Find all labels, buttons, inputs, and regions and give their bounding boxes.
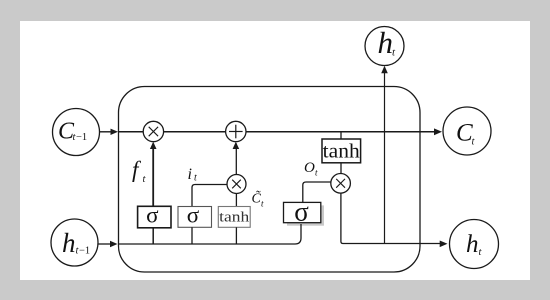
multiply node X3 bbox=[331, 174, 351, 194]
node C(t-1) bbox=[53, 109, 100, 156]
tanh box 1 bbox=[218, 207, 250, 228]
svg-text:C: C bbox=[456, 120, 473, 147]
add node + bbox=[226, 121, 246, 141]
svg-text:tanh: tanh bbox=[323, 141, 360, 163]
svg-text:i: i bbox=[188, 166, 192, 183]
wire: i gate L to X mid bbox=[192, 185, 227, 207]
wire: branch up to top h_t bbox=[384, 68, 386, 244]
wire: X3 down and right to h_t bbox=[341, 193, 440, 243]
node h(t) top bbox=[365, 27, 404, 66]
sigma box 1 bbox=[138, 206, 171, 228]
svg-text:−1: −1 bbox=[79, 246, 90, 257]
tanh box 2 bbox=[340, 132, 342, 139]
wire: main C line bbox=[119, 131, 144, 133]
LSTM cell body rounded rectangle bbox=[119, 87, 421, 273]
sigma box 2 bbox=[178, 207, 212, 228]
node C(t) bbox=[443, 107, 491, 155]
svg-text:tanh: tanh bbox=[219, 210, 250, 226]
multiply node X1 bbox=[143, 121, 163, 141]
multiply node X mid bbox=[227, 175, 246, 194]
svg-text:C̃: C̃ bbox=[252, 190, 262, 206]
svg-text:O: O bbox=[304, 160, 315, 176]
wire: tanh1 to X mid bbox=[235, 194, 237, 207]
svg-text:σ: σ bbox=[294, 196, 309, 226]
svg-text:h: h bbox=[378, 25, 394, 60]
wire: internal h line to sigma4 bbox=[119, 224, 302, 244]
sigma box 4 (output gate) bbox=[287, 205, 324, 225]
node h(t-1) bbox=[51, 219, 98, 266]
wire: f gate up to X1 with arrow bbox=[152, 144, 154, 207]
wire: C(t-1) to cell edge bbox=[100, 131, 113, 133]
svg-text:h: h bbox=[466, 231, 479, 258]
wire: sigma4 L to X3 bbox=[303, 182, 331, 202]
wire: mid X up to + with arrow bbox=[235, 144, 237, 175]
svg-text:−1: −1 bbox=[76, 132, 87, 143]
wire: box drops to h line bbox=[152, 228, 154, 244]
node h(t) right bbox=[450, 220, 499, 269]
svg-text:σ: σ bbox=[187, 202, 200, 227]
svg-text:σ: σ bbox=[146, 202, 159, 227]
svg-text:t: t bbox=[194, 173, 197, 184]
svg-text:h: h bbox=[62, 228, 76, 258]
wire: h(t-1) to cell edge bbox=[98, 243, 112, 245]
